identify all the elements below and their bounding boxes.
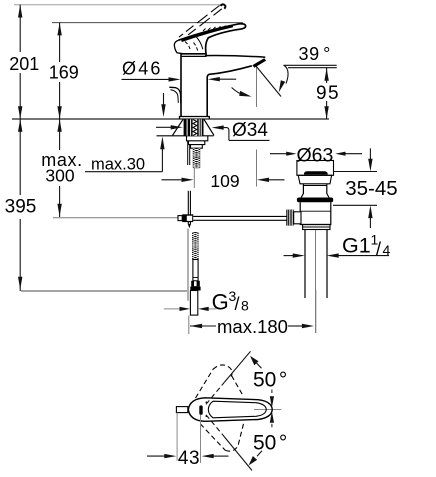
svg-text:39°: 39° (299, 44, 331, 64)
svg-text:max.30: max.30 (91, 155, 145, 173)
svg-text:G1: G1 (342, 234, 371, 258)
svg-text:43: 43 (178, 448, 200, 469)
svg-text:395: 395 (5, 197, 37, 218)
svg-text:Ø63: Ø63 (297, 145, 334, 167)
svg-text:/: / (235, 294, 240, 314)
svg-text:50°: 50° (253, 368, 287, 391)
svg-text:95: 95 (316, 83, 340, 104)
svg-text:8: 8 (241, 298, 249, 314)
svg-text:35-45: 35-45 (345, 177, 397, 200)
svg-text:169: 169 (49, 63, 79, 83)
svg-text:50°: 50° (253, 431, 287, 454)
svg-text:max.180: max.180 (217, 316, 288, 337)
svg-text:G: G (212, 290, 229, 315)
svg-text:Ø34: Ø34 (232, 120, 268, 141)
svg-text:300: 300 (45, 165, 74, 185)
svg-text:201: 201 (9, 54, 39, 74)
svg-text:109: 109 (210, 171, 239, 191)
svg-text:Ø46: Ø46 (122, 59, 163, 79)
